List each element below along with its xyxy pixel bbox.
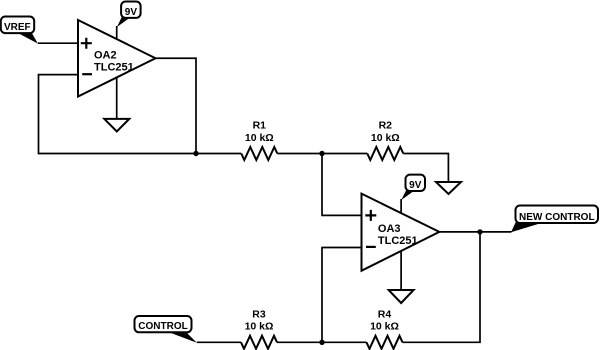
wire OA3 - input left then down to node B <box>322 248 362 343</box>
wire OA3 output to NEW CONTROL tail <box>439 231 511 233</box>
resistor R2 <box>367 147 403 160</box>
wire node A to R2 left <box>322 153 367 155</box>
wire R1 right to node A <box>277 153 322 155</box>
ground (OA2 V-) <box>104 78 129 132</box>
wire CONTROL tail to R3 left <box>197 341 241 343</box>
svg-text:9V: 9V <box>409 180 422 191</box>
wire OA2 output right then down to feedback node <box>156 58 197 153</box>
svg-text:OA2: OA2 <box>94 50 117 62</box>
junction node A <box>319 151 324 156</box>
resistor R4 <box>367 336 403 349</box>
wire node B to R4 left <box>322 341 367 343</box>
power flag 9V (OA2) <box>117 2 141 28</box>
wire OA2 - input feedback loop <box>39 75 197 154</box>
svg-text:OA3: OA3 <box>378 223 401 235</box>
svg-text:TLC251: TLC251 <box>94 62 134 74</box>
net flag VREF <box>1 17 38 44</box>
svg-text:10 kΩ: 10 kΩ <box>245 321 274 333</box>
op-amp OA3 + input symbol <box>365 210 376 221</box>
op-amp OA3 - input symbol <box>366 246 376 248</box>
wire VREF tail to OA2 + input <box>38 42 78 44</box>
wire node A down to OA3 + input <box>322 154 362 216</box>
svg-text:10 kΩ: 10 kΩ <box>245 132 274 144</box>
svg-text:CONTROL: CONTROL <box>138 321 187 332</box>
resistor R3 <box>241 336 277 349</box>
ground (OA3 V-) <box>389 251 414 303</box>
wire R2 right then down to ground <box>403 154 448 183</box>
svg-text:NEW CONTROL: NEW CONTROL <box>519 212 595 223</box>
power flag 9V (OA3) <box>401 175 425 200</box>
junction node B <box>319 340 324 345</box>
svg-text:VREF: VREF <box>4 22 31 33</box>
svg-text:R4: R4 <box>378 308 392 320</box>
wire OA3 V+ pin stem <box>400 199 402 213</box>
wire R4 right then up to output node <box>403 232 481 342</box>
wire OA2 V+ pin stem <box>116 26 118 39</box>
op-amp OA3 body <box>362 194 440 271</box>
wire R3 right to node B <box>277 341 322 343</box>
ground (R2) <box>436 182 461 194</box>
junction output node <box>477 229 482 234</box>
svg-text:R2: R2 <box>379 120 393 132</box>
op-amp OA2 - input symbol <box>82 73 92 75</box>
wire feedback node to R1 left <box>196 153 241 155</box>
op-amp OA2 body <box>78 20 156 97</box>
svg-text:9V: 9V <box>125 7 138 18</box>
svg-text:R1: R1 <box>253 120 267 132</box>
net flag CONTROL <box>135 316 197 343</box>
junction feedback node <box>193 151 198 156</box>
svg-text:TLC251: TLC251 <box>378 235 418 247</box>
resistor R1 <box>241 147 277 160</box>
svg-text:10 kΩ: 10 kΩ <box>371 132 400 144</box>
net flag NEW CONTROL <box>511 206 598 233</box>
svg-text:10 kΩ: 10 kΩ <box>370 321 399 333</box>
op-amp OA2 + input symbol <box>81 38 92 49</box>
svg-text:R3: R3 <box>252 308 266 320</box>
